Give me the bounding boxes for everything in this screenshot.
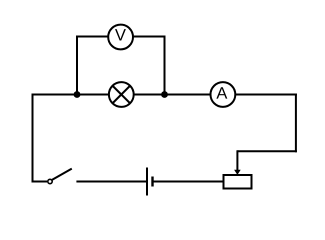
node: junction dot left — [74, 91, 81, 98]
node: junction dot right — [161, 91, 168, 98]
switch: pivot circle (open) — [48, 179, 52, 183]
wire: main horizontal top run — [32, 94, 297, 96]
lamp: cross diagonal 1 — [113, 86, 130, 103]
wire: bottom run from battery to rheostat — [153, 181, 224, 183]
voltmeter V: circle body — [108, 25, 133, 50]
wire: right vertical down from main run — [295, 94, 297, 153]
wire: left vertical (main loop left side) — [32, 95, 34, 183]
wire: bottom run from switch to battery — [76, 181, 147, 183]
lamp: cross diagonal 2 — [113, 86, 130, 103]
ammeter A: label — [216, 87, 227, 98]
rheostat (variable resistor) body — [224, 175, 252, 189]
battery cell: long plate (positive) — [146, 168, 148, 196]
wire: parallel-branch right vertical — [164, 36, 166, 95]
ammeter A: circle body — [211, 82, 236, 107]
arrowhead onto rheostat — [234, 170, 241, 175]
wire: parallel-branch top horizontal — [76, 36, 166, 38]
wire: bottom-left horizontal to switch — [32, 181, 48, 183]
wire: arrow stem down to rheostat — [236, 150, 238, 171]
wire: parallel-branch left vertical — [76, 36, 78, 95]
wire: horizontal run to rheostat arrow — [237, 150, 297, 152]
battery cell: short plate (negative) — [151, 177, 153, 187]
switch: lever arm (open position) — [52, 169, 72, 180]
voltmeter V: label — [115, 29, 126, 40]
lamp: circle body — [109, 82, 134, 107]
